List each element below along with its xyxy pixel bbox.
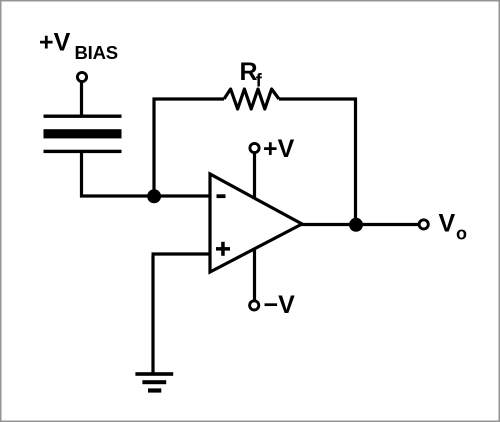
wire: ground to non-inverting input <box>151 256 154 375</box>
op-amp U1 <box>210 174 302 272</box>
svg-text:V: V <box>439 209 456 237</box>
svg-text:f: f <box>256 71 263 91</box>
svg-text:−V: −V <box>264 291 296 319</box>
terminal +Vbias <box>77 72 86 81</box>
op-amp non-inverting input marker <box>216 242 230 256</box>
terminal Vo <box>419 220 428 229</box>
wire: non-inverting input horizontal <box>152 252 212 255</box>
terminal +V <box>250 143 259 152</box>
resistor R1 zigzag <box>224 89 279 109</box>
svg-text:o: o <box>456 224 467 244</box>
wire: sensor to inverting input node <box>80 194 211 197</box>
terminal -V <box>250 301 259 310</box>
wire: sensor bottom plate down <box>80 151 83 198</box>
piezo sensor X1 top plate <box>44 115 122 118</box>
wire: +V terminal to op-amp top <box>253 150 256 200</box>
wire: feedback down to output node <box>354 98 357 225</box>
wire: feedback top right segment <box>279 97 357 100</box>
svg-text:+V: +V <box>39 29 71 57</box>
wire: +Vbias terminal to sensor top plate <box>80 82 83 116</box>
ground <box>135 372 173 392</box>
node B junction dot (output) <box>349 218 363 232</box>
node A junction dot (inverting input) <box>147 189 161 203</box>
wire: feedback top left segment <box>153 97 225 100</box>
svg-text:+V: +V <box>263 135 295 163</box>
wire: op-amp output to Vo terminal <box>298 223 418 226</box>
piezo sensor X1 bottom plate <box>44 150 122 153</box>
piezo sensor X1 middle bar <box>44 129 122 138</box>
wire: node A up to feedback corner <box>152 98 155 197</box>
wire: op-amp bottom to -V terminal <box>253 245 256 300</box>
svg-text:BIAS: BIAS <box>75 42 118 63</box>
op-amp inverting input marker <box>217 194 226 198</box>
